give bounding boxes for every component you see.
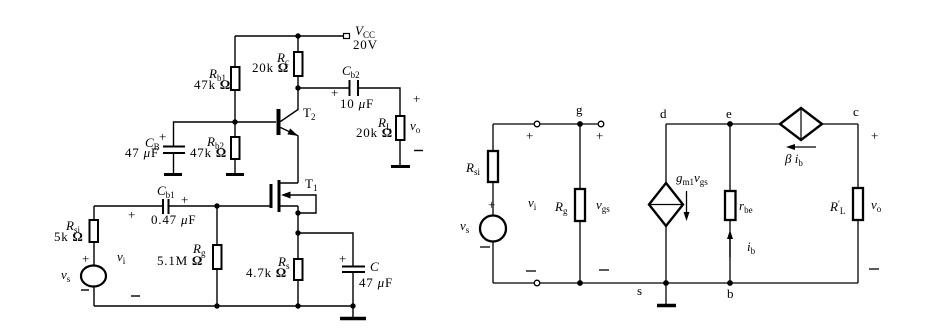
capacitor CB bbox=[163, 147, 185, 154]
wire: RL bottom lead bbox=[399, 140, 401, 165]
source vs (left) bbox=[81, 266, 106, 287]
label minus (vo right) bbox=[869, 268, 879, 270]
wire: Rs top lead bbox=[297, 233, 299, 259]
resistor Rg (right) bbox=[575, 189, 585, 221]
arrow: ib current up bbox=[727, 230, 733, 257]
wire: left branch top bbox=[93, 206, 95, 220]
node: Rg bottom dot (right) bbox=[577, 280, 583, 286]
svg-text:5k Ω: 5k Ω bbox=[54, 229, 83, 244]
wire: vs to rail bbox=[93, 286, 95, 306]
node: C bottom dot bbox=[350, 303, 355, 308]
svg-text:vgs: vgs bbox=[596, 197, 610, 214]
svg-text:+: + bbox=[488, 197, 495, 212]
wire: Rsi to vs bbox=[93, 242, 95, 266]
terminal: VCC open square bbox=[344, 34, 350, 39]
wire: Cb2 to RL bbox=[358, 88, 400, 116]
node: base junction dot bbox=[232, 119, 237, 124]
wire: Rsi to vs bbox=[492, 182, 494, 215]
resistor Rsi (right) bbox=[488, 151, 498, 182]
svg-text:ib: ib bbox=[747, 239, 756, 256]
svg-text:T2: T2 bbox=[303, 105, 315, 122]
resistor RL bbox=[396, 116, 405, 140]
node: junction dot VCC/Rc bbox=[295, 33, 300, 38]
transistor T1 bbox=[271, 180, 316, 213]
node: Rs bottom dot bbox=[295, 303, 300, 308]
svg-text:C: C bbox=[370, 259, 379, 274]
svg-text:+: + bbox=[339, 251, 346, 266]
node: T1 source/substrate dot bbox=[295, 210, 300, 215]
resistor rbe bbox=[725, 191, 736, 220]
resistor Rb1 bbox=[231, 67, 240, 90]
svg-text:+: + bbox=[596, 128, 603, 143]
node b dot bbox=[727, 280, 733, 286]
wire: RL branch top bbox=[857, 124, 859, 188]
svg-text:vo: vo bbox=[410, 118, 421, 135]
source vs (right) bbox=[480, 216, 506, 242]
svg-text:T1: T1 bbox=[305, 176, 317, 193]
wire: rbe branch bottom bbox=[729, 220, 731, 283]
svg-text:+: + bbox=[871, 128, 878, 143]
wire: rbe branch top bbox=[729, 124, 731, 191]
svg-text:vi: vi bbox=[117, 249, 126, 266]
wire: to CB bbox=[174, 122, 236, 146]
resistor R'L bbox=[853, 188, 863, 220]
capacitor C bbox=[342, 267, 365, 273]
wire: RL branch bottom bbox=[857, 220, 859, 283]
ground (CB) bbox=[164, 173, 182, 176]
label minus (vgs) bbox=[599, 269, 609, 271]
wire: bottom left segment bbox=[493, 282, 534, 284]
wire: Rc bottom lead bbox=[297, 76, 299, 88]
svg-text:47k Ω: 47k Ω bbox=[194, 77, 230, 92]
wire: Rb1 top lead bbox=[234, 36, 236, 67]
terminal: open circle bottom bbox=[534, 280, 540, 286]
resistor Rc bbox=[294, 52, 303, 76]
svg-text:5.1M Ω: 5.1M Ω bbox=[157, 253, 202, 268]
wire: to C cap bbox=[298, 233, 353, 266]
svg-text:rbe: rbe bbox=[739, 198, 753, 215]
svg-text:R′L: R′L bbox=[829, 199, 845, 216]
svg-text:vs: vs bbox=[61, 267, 71, 284]
svg-text:+: + bbox=[413, 91, 420, 106]
svg-text:20k Ω: 20k Ω bbox=[356, 125, 392, 140]
wire: top left segment bbox=[493, 123, 534, 125]
node s dot bbox=[663, 280, 669, 286]
wire: beta source to c bbox=[822, 123, 858, 125]
wire: Rg top lead bbox=[216, 206, 218, 245]
label minus (vi right) bbox=[526, 270, 536, 272]
label minus (vo) bbox=[414, 150, 423, 152]
node g dot bbox=[577, 121, 583, 127]
svg-text:10 μF: 10 μF bbox=[340, 96, 374, 111]
wire: C to rail bbox=[352, 272, 354, 306]
svg-text:β ib: β ib bbox=[784, 151, 803, 168]
wire: vs to rail bbox=[492, 242, 494, 284]
terminal: open circle right of g bbox=[598, 121, 604, 127]
label minus (vi left) bbox=[131, 295, 140, 297]
svg-text:47 μF: 47 μF bbox=[125, 145, 159, 160]
node: Rg top dot bbox=[214, 203, 219, 208]
wire: CB to ground bbox=[173, 153, 175, 173]
svg-text:47 μF: 47 μF bbox=[359, 275, 393, 290]
wire: d to e to beta source bbox=[666, 123, 780, 125]
wire: Rg branch top bbox=[579, 124, 581, 189]
wire: left vertical top bbox=[492, 124, 494, 151]
wire: to g node bbox=[540, 123, 598, 125]
wire: base wire bbox=[235, 121, 276, 123]
svg-text:Cb1: Cb1 bbox=[157, 183, 175, 200]
wire: Rg bottom lead bbox=[216, 269, 218, 306]
arrow: gm source current down bbox=[684, 191, 690, 221]
svg-text:c: c bbox=[853, 104, 859, 119]
svg-text:Rsi: Rsi bbox=[465, 160, 480, 177]
svg-text:+: + bbox=[159, 129, 166, 144]
svg-text:+: + bbox=[82, 251, 89, 266]
arrow: beta ib current left bbox=[786, 144, 816, 150]
wire: Rc top lead bbox=[297, 36, 299, 52]
wire: T1 source down bbox=[297, 206, 299, 233]
terminal: open circle top left bbox=[534, 121, 540, 127]
wire: Rb1 bottom lead bbox=[234, 90, 236, 122]
ground (right circuit) bbox=[657, 304, 676, 308]
svg-text:4.7k Ω: 4.7k Ω bbox=[246, 265, 286, 280]
wire: Rb2 top lead bbox=[234, 122, 236, 137]
svg-text:s: s bbox=[637, 283, 642, 298]
wire: Cb1 to gate bbox=[169, 205, 271, 207]
node e dot bbox=[727, 121, 733, 127]
svg-text:+: + bbox=[181, 192, 188, 207]
wire: input top left bbox=[94, 205, 163, 207]
svg-text:gm1vgs: gm1vgs bbox=[676, 170, 708, 187]
svg-text:+: + bbox=[331, 85, 338, 100]
wire: bottom rail bbox=[94, 305, 353, 307]
label minus (vs right) bbox=[480, 246, 490, 248]
svg-text:vi: vi bbox=[528, 195, 537, 212]
dependent source gm1*vgs bbox=[649, 183, 683, 226]
svg-text:g: g bbox=[576, 102, 583, 117]
ground (RL) bbox=[391, 165, 410, 168]
resistor Rb2 bbox=[231, 137, 240, 159]
wire: bottom rail right bbox=[666, 282, 858, 284]
svg-text:+: + bbox=[128, 207, 135, 222]
dependent source beta*ib bbox=[780, 108, 822, 140]
svg-text:e: e bbox=[726, 106, 732, 121]
resistor Rg bbox=[213, 245, 222, 269]
node: collector junction dot bbox=[295, 85, 300, 90]
svg-text:+: + bbox=[526, 128, 533, 143]
svg-text:vs: vs bbox=[460, 218, 470, 235]
wire: bottom rail to s bbox=[540, 282, 666, 284]
resistor Rs bbox=[294, 259, 303, 280]
wire: gm branch top bbox=[665, 124, 667, 183]
ground (bottom rail) bbox=[340, 317, 366, 321]
svg-text:20k Ω: 20k Ω bbox=[252, 60, 288, 75]
wire: gm branch bottom bbox=[665, 226, 667, 283]
capacitor Cb1 bbox=[163, 199, 169, 214]
capacitor Cb2 bbox=[350, 80, 359, 96]
svg-text:vo: vo bbox=[871, 197, 882, 214]
svg-text:0.47 μF: 0.47 μF bbox=[151, 212, 196, 227]
resistor Rsi (left) bbox=[90, 220, 99, 242]
ground (Rb2) bbox=[226, 173, 244, 176]
label minus (vs left) bbox=[81, 289, 89, 291]
wire: VCC top rail bbox=[235, 35, 344, 37]
wire: Rs bottom lead bbox=[297, 280, 299, 306]
wire: Rg branch bottom bbox=[579, 221, 581, 283]
svg-text:b: b bbox=[727, 286, 734, 301]
svg-text:20V: 20V bbox=[353, 37, 378, 52]
svg-text:Cb2: Cb2 bbox=[342, 63, 360, 80]
svg-text:d: d bbox=[660, 106, 667, 121]
wire: ground stub (right) bbox=[665, 283, 667, 304]
svg-text:47k Ω: 47k Ω bbox=[190, 145, 226, 160]
node: source/C junction dot bbox=[295, 230, 300, 235]
wire: collector to Cb2 bbox=[298, 87, 349, 89]
node: Rg bottom dot bbox=[214, 303, 219, 308]
wire: Rb2 bottom lead bbox=[234, 159, 236, 173]
transistor T2 bbox=[279, 88, 299, 136]
wire: T2 emitter down to T1 drain bbox=[297, 136, 299, 184]
svg-text:Rg: Rg bbox=[554, 199, 568, 216]
wire: ground stub bbox=[352, 306, 354, 317]
